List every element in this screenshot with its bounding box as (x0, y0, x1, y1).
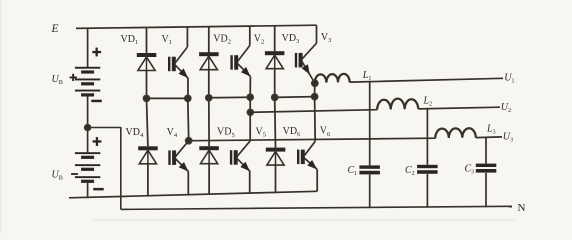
wire battery midpoint to N bus (91, 128, 121, 210)
label L1 (362, 70, 372, 82)
wire V6 emitter (316, 169, 318, 191)
wire V5 emitter (249, 171, 251, 194)
wire V2 collector stub (249, 26, 251, 45)
label V5 (256, 126, 266, 138)
capacitor C2 (417, 165, 438, 174)
label C3 (465, 164, 475, 176)
svg-text:N: N (518, 202, 526, 214)
wire V4 emitter (187, 171, 189, 195)
wire leg1 to VD4 (147, 98, 148, 146)
wire VD2 anode (208, 70, 210, 98)
node leg1 diode junction (143, 95, 151, 103)
label VD6 (283, 126, 301, 138)
wire battery mid lower (87, 128, 89, 154)
transistor V3 (IGBT) (295, 43, 317, 83)
wire phase1 to U1 (360, 78, 503, 82)
battery UB lower (multi-cell) (75, 152, 100, 183)
wire leg3 to VD6 (274, 97, 277, 147)
diode VD6 (266, 148, 286, 166)
node E (positive DC bus label) (51, 23, 59, 35)
wire leg2 midpoint rail (209, 96, 250, 99)
wire VD1 anode (146, 71, 148, 99)
diode VD5 (199, 146, 219, 164)
label V4 (167, 127, 178, 139)
node phase1 takeoff (311, 79, 319, 87)
battery UB upper (multi-cell) (75, 67, 100, 97)
battery UB lower plus sign (93, 137, 102, 146)
label VD5 (217, 127, 235, 139)
wire negative DC rail (69, 191, 317, 198)
transistor V5 (IGBT) (230, 141, 250, 171)
label UB lower (52, 170, 78, 182)
battery UB upper plus sign (92, 48, 101, 57)
wire V3 collector stub (316, 25, 318, 43)
wire positive DC rail (76, 25, 317, 28)
capacitor C3 (476, 164, 497, 173)
wire C1 upper (369, 82, 371, 166)
inductor L2 (377, 99, 418, 110)
node phase2 takeoff (247, 109, 255, 117)
transistor V2 (IGBT) (230, 46, 250, 77)
capacitor C1 (359, 165, 380, 174)
transistor V6 (IGBT) (297, 141, 317, 169)
node leg2 diode junction (205, 94, 213, 102)
wire N bus (121, 206, 512, 209)
label U1 (504, 73, 514, 85)
diode VD4 (138, 146, 158, 164)
label V6 (320, 126, 331, 138)
node N label (518, 202, 526, 214)
wire battery bottom (87, 181, 89, 198)
wire phase2 to U2 (418, 107, 500, 109)
label V3 (321, 32, 331, 44)
diode VD3 (265, 51, 285, 68)
wire V2 emitter (249, 77, 251, 98)
wire phase3 to U3 (476, 136, 502, 139)
wire leg2 to V5 collector (249, 97, 251, 141)
node leg2 transistor junction (246, 93, 254, 101)
inductor L3 (435, 128, 476, 138)
node leg3 diode junction (271, 94, 279, 102)
wire C1 lower (369, 175, 371, 208)
battery UB upper minus sign (91, 100, 102, 103)
label U2 (501, 102, 511, 114)
wire battery mid upper (87, 95, 89, 128)
wire C3 lower (485, 173, 487, 207)
wire VD5 anode (208, 164, 210, 195)
label U3 (503, 132, 513, 144)
wire leg3 to V6 collector (314, 97, 317, 142)
label L2 (423, 96, 433, 108)
label L3 (486, 124, 496, 136)
wire V1 emitter (187, 78, 189, 98)
label VD3 (282, 33, 300, 45)
inductor L1 (315, 74, 360, 83)
wire VD1 collector stub (146, 27, 148, 53)
wire VD3 collector stub (274, 26, 276, 52)
node leg3 transistor junction (311, 93, 319, 101)
wire leg2 to VD5 (208, 98, 210, 146)
battery UB lower minus sign (93, 188, 104, 191)
label V2 (254, 34, 264, 46)
node battery midpoint (84, 124, 92, 132)
diode VD1 (137, 53, 157, 71)
transistor V1 (IGBT) (168, 47, 188, 78)
wire VD3 anode (274, 69, 276, 98)
wire C2 lower (426, 174, 428, 208)
wire V1 collector stub (186, 27, 188, 47)
diode VD2 (199, 52, 219, 69)
label VD1 (121, 34, 139, 46)
wire VD4 anode (147, 164, 149, 197)
wire leg3 midpoint rail (275, 96, 315, 99)
wire phase2 takeoff to L2 (250, 110, 377, 113)
label C2 (405, 165, 415, 177)
wire battery top (87, 28, 89, 67)
wire VD6 anode (275, 165, 277, 193)
wire leg1 midpoint rail (147, 97, 188, 99)
wire VD2 collector stub (208, 27, 210, 53)
wire C2 upper (426, 109, 428, 165)
wire phase3 takeoff to L3 (193, 138, 436, 141)
label VD2 (213, 34, 231, 46)
node leg1 transistor junction (184, 95, 192, 103)
node phase3 takeoff (185, 137, 193, 145)
label UB upper (52, 74, 77, 86)
svg-text:E: E (51, 23, 59, 35)
label V1 (162, 34, 172, 46)
label C1 (348, 165, 358, 177)
wire leg1 to V4 collector (187, 98, 190, 140)
label VD4 (126, 127, 144, 139)
wire phase1 takeoff to leg3 rail (314, 83, 316, 96)
wire C3 upper (485, 138, 487, 164)
transistor V4 (IGBT) (168, 141, 188, 172)
